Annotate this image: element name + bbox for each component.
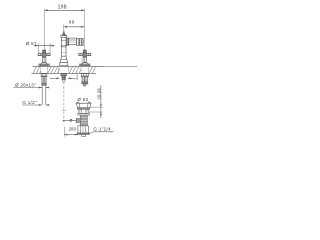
vertical dimension 30-39 xyxy=(89,85,103,119)
svg-text:Ø 63: Ø 63 xyxy=(77,97,88,102)
drain label D63 xyxy=(77,97,88,102)
spout shank below deck with diameter arrows xyxy=(50,74,77,82)
label G 1*1/4 with leader xyxy=(87,127,113,135)
pop-up rod with ball joint xyxy=(63,118,81,122)
spout arm xyxy=(66,38,83,46)
drain flange xyxy=(76,101,91,109)
spout column xyxy=(60,31,68,66)
svg-text:30-39: 30-39 xyxy=(96,88,101,100)
right handle (cross handle) xyxy=(79,50,91,66)
drain threaded tail xyxy=(80,115,87,126)
dimension D57 (handle diameter) xyxy=(26,41,55,54)
svg-text:G 1"1/4: G 1"1/4 xyxy=(93,127,111,132)
centerline below spout (dashed) xyxy=(62,82,67,121)
svg-text:Ø 26x13°: Ø 26x13° xyxy=(15,82,36,87)
drain locknut xyxy=(77,126,89,136)
dimension 99 (spout to right inlet) xyxy=(64,20,85,33)
svg-text:99: 99 xyxy=(69,20,75,25)
drain body xyxy=(78,109,90,115)
countertop deck section xyxy=(32,66,138,73)
svg-text:198: 198 xyxy=(58,4,67,10)
label G 1/2 with double arrow leader xyxy=(22,100,50,106)
dimension 198 (inlet spacing, top) xyxy=(44,4,84,50)
deck hatching xyxy=(33,66,96,73)
svg-text:280: 280 xyxy=(69,127,77,132)
dimension 280 under drain xyxy=(64,127,78,137)
left handle (cross handle) xyxy=(38,50,50,66)
svg-text:G 1/2": G 1/2" xyxy=(22,100,36,105)
right inlet tail below deck xyxy=(81,74,88,87)
label D26x13 with double arrow leader xyxy=(14,82,50,88)
hole edges xyxy=(41,66,89,73)
left inlet tail below deck xyxy=(41,74,47,105)
